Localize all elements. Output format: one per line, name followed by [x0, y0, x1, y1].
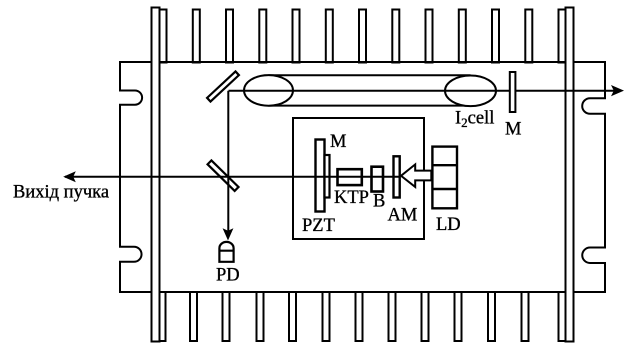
- svg-text:Вихід пучка: Вихід пучка: [13, 183, 109, 203]
- svg-text:PZT: PZT: [302, 216, 335, 236]
- photodetector PD: [219, 242, 233, 262]
- pump arrow from LD: [401, 164, 431, 187]
- svg-text:LD: LD: [436, 215, 461, 235]
- svg-text:M: M: [505, 120, 521, 140]
- output mirror M (right): [510, 72, 516, 112]
- output beam to iodine cell (top): [229, 90, 620, 92]
- heatsink fins top: [160, 10, 566, 63]
- svg-text:B: B: [373, 192, 385, 212]
- arrowhead beam down to PD: [223, 228, 234, 240]
- I2 cell left window: [244, 75, 293, 106]
- modulator AM: [394, 156, 400, 197]
- laser diode LD stack: [432, 147, 457, 209]
- folding mirror (top left): [207, 71, 239, 101]
- cavity mirror M on PZT: [325, 155, 330, 198]
- svg-text:KTP: KTP: [334, 188, 369, 208]
- svg-text:AM: AM: [388, 206, 418, 226]
- I2 cell tube body: [269, 75, 471, 105]
- arrowhead beam exit right: [611, 85, 624, 96]
- Brewster plate B: [372, 167, 384, 192]
- beam to photodetector (vertical): [227, 91, 229, 232]
- beamsplitter plate: [208, 160, 239, 191]
- I2 cell right window: [445, 76, 496, 107]
- piezo actuator PZT: [316, 140, 325, 212]
- svg-text:I2cell: I2cell: [455, 109, 494, 131]
- KTP crystal: [338, 169, 362, 185]
- laser head inner box: [293, 118, 424, 239]
- svg-text:PD: PD: [216, 266, 240, 286]
- mounting rod left: [152, 8, 160, 342]
- arrowhead output beam left: [63, 171, 76, 182]
- main intracavity beam (horizontal): [65, 176, 399, 178]
- mounting rod right: [566, 8, 574, 342]
- heatsink fins bottom: [159, 292, 566, 341]
- svg-text:M: M: [330, 132, 346, 152]
- enclosure baseplate with mounting notches: [120, 62, 605, 292]
